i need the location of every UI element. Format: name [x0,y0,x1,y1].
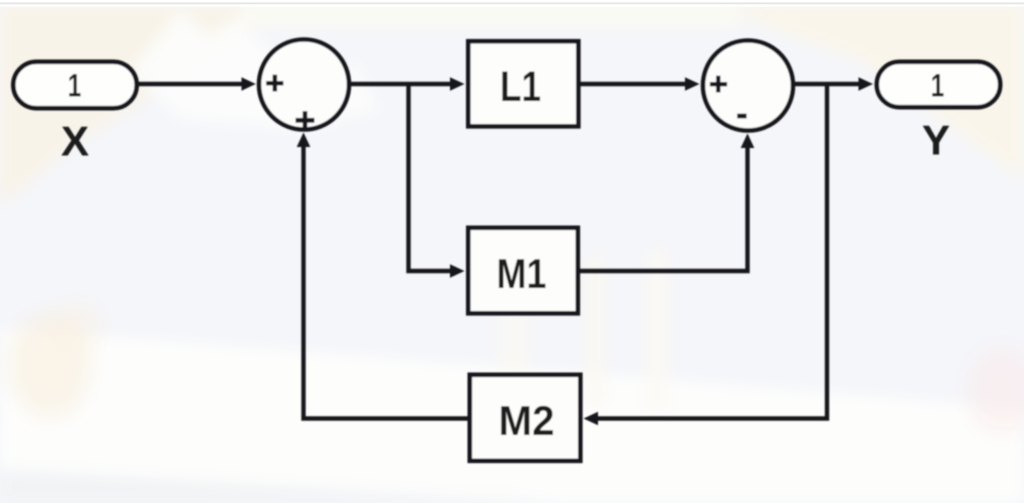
top white strip and hairline [0,0,1024,3]
wire feedback from output node down to M2 [593,84,827,419]
block M1 [468,228,578,313]
wire L1 to sum2 [580,82,690,86]
plus sign sum1 bottom [296,111,315,128]
wire branch node down to M1 [409,84,455,271]
wire sum1 to L1 [351,82,454,86]
faint pink blob bottom-right [968,348,1024,432]
wire input to sum1 [138,82,246,86]
block M2 [470,375,581,461]
snowfield below diagonal [0,328,1024,503]
bottom-left gray strip [0,470,560,503]
cream top-left sky [0,4,270,205]
svg-text:1: 1 [68,68,82,104]
summing junction 1 [259,40,349,130]
wire sum2 to output [795,82,863,86]
arrowhead into output [859,77,874,91]
svg-text:Y: Y [922,117,950,164]
white mountain peaks [130,10,380,130]
svg-text:L1: L1 [500,63,541,111]
plus sign sum2 left [710,76,727,93]
warm band across top middle [240,4,740,26]
faint pale trees [500,240,526,410]
arrowhead up into sum1 bottom [297,133,311,148]
arrowhead up into sum2 bottom [741,134,755,149]
svg-text:1: 1 [931,68,945,104]
output block Y [877,62,1000,107]
svg-text:X: X [61,118,89,165]
minus sign sum2 bottom [737,114,746,119]
summing junction 2 [703,41,793,131]
arrowhead into L1 [450,77,465,91]
arrowhead left into M2 [584,412,599,426]
svg-text:M2: M2 [499,397,555,444]
block L1 [468,41,578,126]
arrowhead into sum1 [242,77,256,90]
plus sign sum1 left [266,75,283,92]
faint warm animal blob bottom-left [10,313,90,417]
input block X [13,62,136,108]
arrowhead into sum2 [685,77,700,91]
arrowhead into M1 [450,264,465,278]
wire M1 up to sum2 [580,144,748,271]
wire M2 back up to sum1 [304,143,468,419]
cream top-right sky [720,4,1024,180]
svg-text:M1: M1 [497,250,547,297]
